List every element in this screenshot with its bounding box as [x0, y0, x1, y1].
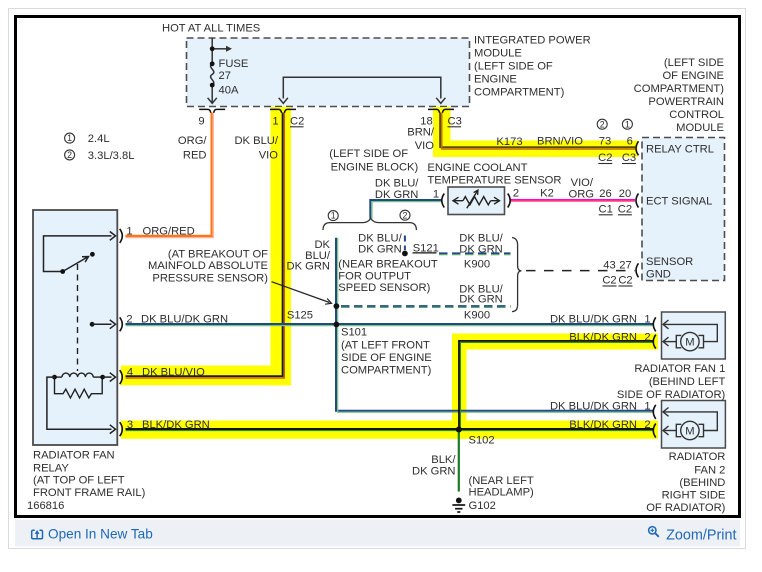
splice junction dot S102	[456, 427, 462, 433]
dashed wire K900 upper DK BLU/DK GRN	[439, 252, 511, 254]
svg-text:BRN/VIO: BRN/VIO	[537, 136, 583, 148]
fan 1 pin 1 connector	[653, 317, 656, 331]
svg-text:ENGINE: ENGINE	[474, 74, 517, 86]
relay switch arm arrowhead	[82, 257, 89, 263]
svg-text:Zoom/Print: Zoom/Print	[666, 528, 736, 544]
svg-text:SENSOR: SENSOR	[646, 256, 693, 268]
closing brace before PCM sensor gnd	[512, 238, 521, 312]
svg-text:40A: 40A	[219, 85, 239, 97]
svg-text:DK BLU/DK GRN: DK BLU/DK GRN	[141, 314, 228, 326]
fan 2 internal wiring and motor M2	[663, 408, 717, 440]
svg-text:ENGINE BLOCK): ENGINE BLOCK)	[331, 162, 419, 174]
relay switch contact wiring	[44, 232, 116, 272]
svg-text:1: 1	[644, 401, 650, 413]
svg-text:VIO/: VIO/	[571, 177, 594, 189]
dashed wire DK BLU/DK GRN branch 2 vertical	[404, 236, 406, 251]
svg-text:VIO: VIO	[259, 150, 279, 162]
svg-text:2: 2	[126, 314, 132, 326]
relay pin 2 connector	[120, 317, 123, 331]
svg-text:DK BLU/DK GRN: DK BLU/DK GRN	[550, 401, 637, 413]
svg-text:COMPARTMENT): COMPARTMENT)	[474, 87, 565, 99]
wire K2 VIO/ORG from ECT sensor pin 2 to PCM ect signal	[511, 199, 636, 201]
svg-text:Open In New Tab: Open In New Tab	[48, 527, 153, 542]
svg-text:9: 9	[198, 116, 204, 128]
variant circles above brace	[328, 211, 338, 221]
brace over branches 1 and 2	[323, 218, 416, 230]
svg-text:1: 1	[625, 119, 630, 129]
svg-text:C2: C2	[290, 116, 304, 128]
fuse 27 40A symbol	[211, 38, 227, 103]
svg-text:C1: C1	[599, 204, 613, 216]
PCM sensor gnd connector	[636, 263, 639, 277]
svg-text:C2: C2	[602, 275, 616, 287]
svg-text:K900: K900	[464, 259, 490, 271]
svg-text:S102: S102	[469, 435, 495, 447]
arrow from MAP breakout note to junction	[272, 282, 330, 303]
svg-text:MODULE: MODULE	[474, 48, 522, 60]
svg-text:RELAY CTRL: RELAY CTRL	[646, 143, 714, 155]
svg-text:DK GRN: DK GRN	[459, 243, 503, 255]
svg-text:C2: C2	[618, 204, 632, 216]
svg-text:FOR OUTPUT: FOR OUTPUT	[338, 271, 411, 283]
svg-text:2: 2	[513, 188, 519, 200]
svg-text:COMPARTMENT): COMPARTMENT)	[634, 83, 725, 95]
svg-text:K900: K900	[464, 310, 490, 322]
engine variant legend	[65, 133, 75, 143]
fan 1 internal wiring and motor M1	[663, 320, 717, 351]
svg-text:DK GRN: DK GRN	[412, 466, 456, 478]
footer toolbar	[15, 520, 740, 547]
wire ORG/RED from fuse 27 to relay pin 1	[126, 113, 212, 236]
svg-text:C3: C3	[622, 152, 636, 164]
svg-text:POWERTRAIN: POWERTRAIN	[648, 96, 724, 108]
relay resistor parallel loop	[55, 377, 103, 398]
radiator fan 2 motor box	[662, 401, 726, 449]
svg-text:K173: K173	[496, 136, 522, 148]
svg-text:2: 2	[600, 119, 605, 129]
connector terminal 1 C2 at fuse box	[270, 109, 296, 112]
svg-text:(AT BREAKOUT OF: (AT BREAKOUT OF	[168, 248, 268, 260]
svg-text:27: 27	[619, 260, 631, 272]
svg-text:166816: 166816	[27, 500, 64, 512]
svg-text:DK GRN: DK GRN	[286, 261, 330, 273]
svg-text:ORG/: ORG/	[178, 135, 207, 147]
svg-text:MODULE: MODULE	[676, 122, 724, 134]
svg-text:GND: GND	[646, 269, 671, 281]
svg-text:S125: S125	[287, 310, 313, 322]
dashed wire K900 lower DK BLU/DK GRN	[341, 305, 511, 307]
svg-text:2: 2	[67, 150, 72, 160]
svg-text:VIO: VIO	[415, 140, 435, 152]
wire BLK/DK GRN from S102 down to ground G102	[458, 430, 460, 492]
PCM relay ctrl connector	[636, 141, 639, 155]
svg-text:INTEGRATED POWER: INTEGRATED POWER	[474, 35, 591, 47]
junction dot at breakout (arrow target)	[334, 303, 340, 309]
wire DK BLU/DK GRN to ECT sensor pin 1	[370, 200, 441, 219]
svg-text:DK GRN: DK GRN	[459, 293, 503, 305]
svg-text:(AT LEFT FRONT: (AT LEFT FRONT	[341, 340, 430, 352]
fan 1 pin 2 connector	[653, 335, 656, 349]
svg-text:DK GRN: DK GRN	[358, 243, 402, 255]
svg-text:COMPARTMENT): COMPARTMENT)	[341, 365, 432, 377]
wire DK BLU/VIO from fuse box C2-1 to relay pin 4	[126, 113, 283, 377]
svg-text:C3: C3	[448, 116, 462, 128]
svg-text:ECT SIGNAL: ECT SIGNAL	[646, 196, 712, 208]
svg-text:73: 73	[599, 136, 611, 148]
svg-text:(LEFT SIDE OF: (LEFT SIDE OF	[329, 148, 408, 160]
svg-text:CONTROL: CONTROL	[669, 109, 724, 121]
svg-text:2.4L: 2.4L	[88, 133, 110, 145]
relay pin 3 wire and arrowhead	[47, 377, 112, 429]
svg-text:RIGHT SIDE: RIGHT SIDE	[662, 489, 726, 501]
svg-text:3.3L/3.8L: 3.3L/3.8L	[88, 150, 135, 162]
svg-text:OF RADIATOR): OF RADIATOR)	[646, 502, 725, 514]
relay pin 2 contact and wire	[90, 322, 95, 327]
svg-text:BLK/DK GRN: BLK/DK GRN	[569, 332, 637, 344]
svg-text:C2: C2	[618, 275, 632, 287]
S121 label underline black segment	[413, 252, 437, 254]
fan 2 pin 2 connector	[653, 424, 656, 438]
svg-text:2: 2	[644, 419, 650, 431]
svg-text:2: 2	[644, 332, 650, 344]
svg-text:6: 6	[627, 136, 633, 148]
svg-text:(NEAR BREAKOUT: (NEAR BREAKOUT	[338, 259, 438, 271]
ECT sensor pin 2 connector	[508, 194, 511, 208]
svg-text:RADIATOR FAN 1: RADIATOR FAN 1	[634, 363, 725, 375]
svg-text:1: 1	[331, 211, 336, 221]
powertrain control module box U-PCM	[642, 138, 725, 281]
svg-text:FAN 2: FAN 2	[694, 464, 725, 476]
svg-text:4: 4	[127, 367, 133, 379]
wire BLK/DK GRN fan 1 pin 2 to S102	[459, 341, 654, 429]
svg-text:C2: C2	[598, 152, 612, 164]
svg-text:BLK/DK GRN: BLK/DK GRN	[142, 419, 210, 431]
svg-text:1: 1	[67, 133, 72, 143]
ECT sensor thermistor symbol	[453, 191, 500, 208]
relay linkage dashed line	[77, 264, 79, 371]
wire inside IPM box to C2-1 and C3-18	[283, 77, 441, 98]
highlight band: K173 BRN/VIO horizontal	[433, 141, 638, 158]
radiator fan relay box	[33, 210, 117, 445]
svg-text:RADIATOR FAN: RADIATOR FAN	[33, 450, 115, 462]
svg-text:DK GRN: DK GRN	[375, 189, 419, 201]
highlight band: DK BLU/VIO vertical wire	[271, 107, 292, 386]
highlight band: BLK/DK GRN vertical at S102	[452, 334, 467, 439]
connector terminal 18 C3 at fuse box	[428, 109, 454, 112]
svg-text:ORG: ORG	[569, 188, 594, 200]
engine coolant temperature sensor box	[448, 187, 505, 215]
svg-text:M: M	[685, 337, 694, 349]
svg-text:(NEAR LEFT: (NEAR LEFT	[469, 475, 534, 487]
relay coil	[55, 373, 103, 377]
svg-text:TEMPERATURE SENSOR: TEMPERATURE SENSOR	[427, 175, 561, 187]
svg-text:S121: S121	[413, 243, 439, 255]
splice junction dot S121	[402, 251, 408, 257]
svg-text:1: 1	[126, 225, 132, 237]
svg-text:MAINFOLD ABSOLUTE: MAINFOLD ABSOLUTE	[148, 260, 268, 272]
wire DK BLU/DK GRN branch 1 vertical down to fan 2 pin 1	[336, 238, 654, 411]
svg-text:BLK/: BLK/	[431, 454, 456, 466]
svg-text:OF ENGINE: OF ENGINE	[662, 70, 724, 82]
fuse output down arrowhead	[208, 98, 217, 104]
relay pin 4 connector	[120, 370, 123, 384]
svg-text:1: 1	[272, 116, 278, 128]
svg-text:(LEFT SIDE: (LEFT SIDE	[664, 57, 724, 69]
svg-text:1: 1	[433, 189, 439, 201]
svg-text:DK BLU/VIO: DK BLU/VIO	[142, 367, 205, 379]
svg-text:SPEED SENSOR): SPEED SENSOR)	[338, 282, 430, 294]
svg-text:K2: K2	[540, 188, 554, 200]
svg-text:FRONT FRAME RAIL): FRONT FRAME RAIL)	[33, 487, 146, 499]
svg-text:43: 43	[603, 260, 615, 272]
svg-text:20: 20	[619, 188, 631, 200]
svg-text:DK BLU/: DK BLU/	[375, 178, 419, 190]
svg-text:(BEHIND LEFT: (BEHIND LEFT	[649, 376, 726, 388]
svg-text:(AT TOP OF LEFT: (AT TOP OF LEFT	[33, 475, 125, 487]
wire DK BLU/DK GRN relay pin 2 to S101 to fan 1 pin 1	[126, 323, 654, 325]
svg-text:RED: RED	[183, 150, 207, 162]
connector terminal 9 at fuse box	[199, 109, 225, 112]
footer zoom/print icon	[649, 527, 659, 537]
svg-text:RADIATOR: RADIATOR	[669, 451, 726, 463]
highlight band: DK BLU/VIO horizontal to relay pin 4	[121, 366, 291, 386]
highlight band: BRN/VIO vertical at 18 C3	[433, 107, 451, 157]
svg-text:ENGINE COOLANT: ENGINE COOLANT	[427, 162, 527, 174]
svg-text:27: 27	[219, 70, 231, 82]
highlight band: BLK/DK GRN long horizontal relay pin 3 to fan 2	[121, 421, 658, 439]
svg-text:FUSE: FUSE	[219, 58, 249, 70]
radiator fan 1 motor box	[662, 312, 726, 359]
integrated power module box	[187, 38, 470, 107]
svg-text:HEADLAMP): HEADLAMP)	[469, 487, 535, 499]
svg-text:SIDE OF ENGINE: SIDE OF ENGINE	[341, 352, 432, 364]
wire BLK/DK GRN relay pin 3 to S102 to fan 2 pin 2	[126, 428, 654, 430]
svg-text:(LEFT SIDE OF: (LEFT SIDE OF	[474, 61, 553, 73]
svg-text:S101: S101	[341, 327, 367, 339]
svg-text:DK BLU/: DK BLU/	[234, 135, 278, 147]
fan 2 pin 1 connector	[653, 405, 656, 419]
dashed wire from brace to PCM sensor gnd	[526, 270, 635, 272]
svg-text:RELAY: RELAY	[33, 462, 69, 474]
relay pin 1 connector	[120, 229, 123, 243]
highlight band: BLK/DK GRN fan 1 pin 2 horizontal	[452, 334, 658, 350]
svg-text:BRN/: BRN/	[407, 127, 435, 139]
ECT sensor pin 1 connector	[442, 194, 445, 208]
svg-text:M: M	[685, 426, 694, 438]
svg-text:DK BLU/DK GRN: DK BLU/DK GRN	[550, 314, 637, 326]
svg-text:2: 2	[403, 210, 408, 220]
svg-text:1: 1	[644, 314, 650, 326]
relay pin 3 connector	[120, 422, 123, 436]
svg-text:26: 26	[599, 188, 611, 200]
wire K173 BRN/VIO from C3-18 to PCM relay ctrl	[440, 113, 635, 148]
footer open in new tab icon	[32, 530, 43, 539]
relay pin 4 wire and arrowhead	[103, 376, 112, 378]
svg-text:G102: G102	[469, 500, 496, 512]
svg-text:3: 3	[127, 419, 133, 431]
PCM ect signal connector	[636, 194, 639, 208]
svg-text:SIDE OF RADIATOR): SIDE OF RADIATOR)	[617, 389, 726, 401]
svg-text:ORG/RED: ORG/RED	[143, 225, 195, 237]
ground symbol G102	[456, 498, 462, 504]
splice junction dot S101	[334, 322, 340, 328]
svg-text:HOT AT ALL TIMES: HOT AT ALL TIMES	[162, 23, 260, 35]
svg-text:(BEHIND: (BEHIND	[679, 477, 725, 489]
svg-text:BLK/DK GRN: BLK/DK GRN	[569, 419, 637, 431]
svg-text:PRESSURE SENSOR): PRESSURE SENSOR)	[152, 273, 268, 285]
